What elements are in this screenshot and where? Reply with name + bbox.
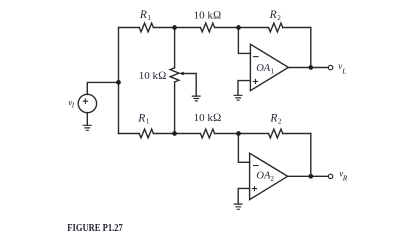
svg-text:R: R bbox=[137, 112, 145, 124]
svg-text:FIGURE P1.27: FIGURE P1.27 bbox=[67, 222, 123, 232]
svg-text:R: R bbox=[269, 9, 277, 21]
svg-text:2: 2 bbox=[277, 13, 281, 22]
svg-text:10 kΩ: 10 kΩ bbox=[194, 9, 222, 21]
svg-text:OA: OA bbox=[256, 63, 271, 74]
svg-text:R: R bbox=[269, 112, 277, 124]
svg-text:R: R bbox=[342, 173, 348, 182]
svg-text:R: R bbox=[139, 9, 147, 21]
svg-text:10 kΩ: 10 kΩ bbox=[194, 112, 222, 124]
svg-text:2: 2 bbox=[270, 174, 274, 183]
svg-text:1: 1 bbox=[146, 117, 150, 126]
svg-text:1: 1 bbox=[270, 67, 274, 76]
svg-text:2: 2 bbox=[278, 117, 282, 126]
svg-text:L: L bbox=[341, 67, 346, 76]
svg-text:1: 1 bbox=[147, 13, 151, 22]
svg-text:OA: OA bbox=[256, 170, 271, 181]
svg-text:10 kΩ: 10 kΩ bbox=[139, 70, 167, 82]
